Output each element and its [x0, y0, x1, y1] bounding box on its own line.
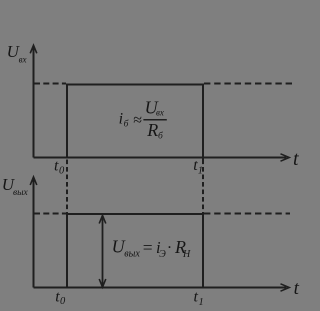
- bottom plot y-axis (U_vyx axis): [33, 179, 35, 288]
- svg-text:вых: вых: [13, 188, 29, 198]
- label U_vx: [7, 42, 27, 65]
- svg-text:i: i: [119, 111, 123, 128]
- top dashed level line right of pulse: [204, 83, 292, 85]
- top pulse top level: [66, 84, 204, 86]
- svg-text:=: =: [142, 238, 154, 258]
- svg-text:t: t: [294, 278, 300, 299]
- bottom x-axis arrowhead: [281, 284, 290, 291]
- svg-text:0: 0: [59, 165, 65, 176]
- svg-text:1: 1: [199, 297, 204, 308]
- svg-text:·: ·: [167, 239, 171, 256]
- svg-text:вых: вых: [124, 249, 140, 260]
- bottom pulse falling edge at t1: [202, 214, 204, 288]
- top pulse falling edge at t1: [202, 84, 204, 160]
- svg-text:R: R: [146, 120, 158, 140]
- label t0 (top plot): [54, 158, 65, 177]
- fraction bar: [143, 119, 166, 121]
- dashed vertical at t1 between plots: [202, 160, 204, 214]
- bottom dashed level line right of pulse: [204, 213, 290, 215]
- label t1 (bottom plot): [194, 289, 204, 309]
- formula i_b ~ Uvx/Rb: [119, 98, 167, 142]
- label U_vyx: [2, 175, 29, 198]
- svg-text:вх: вх: [156, 108, 164, 118]
- bottom dashed level line left of pulse: [34, 213, 66, 215]
- svg-text:≈: ≈: [133, 112, 142, 129]
- top dashed level line left of pulse: [34, 83, 66, 85]
- svg-text:Э: Э: [159, 249, 166, 260]
- svg-text:вх: вх: [19, 55, 27, 65]
- top plot y-axis (U_vx axis): [33, 47, 35, 158]
- bottom plot x-axis (t axis): [34, 287, 287, 289]
- svg-text:0: 0: [60, 296, 66, 307]
- svg-text:Н: Н: [182, 249, 191, 260]
- top pulse rising edge at t0: [66, 84, 68, 158]
- bottom pulse top level: [66, 213, 204, 215]
- top plot x-axis (t axis): [34, 157, 287, 159]
- bottom pulse rising edge at t0: [66, 214, 68, 288]
- bottom y-axis arrowhead: [30, 177, 37, 185]
- formula U_vyx = i_e * R_n: [112, 237, 191, 261]
- top x-axis arrowhead: [281, 154, 290, 161]
- svg-text:t: t: [293, 148, 299, 170]
- label t0 (bottom plot): [55, 288, 66, 307]
- top y-axis arrowhead: [30, 45, 37, 53]
- dashed vertical at t0 between plots: [66, 160, 68, 215]
- amplitude double-headed arrow: [99, 215, 106, 287]
- label t1 (top plot): [193, 157, 203, 176]
